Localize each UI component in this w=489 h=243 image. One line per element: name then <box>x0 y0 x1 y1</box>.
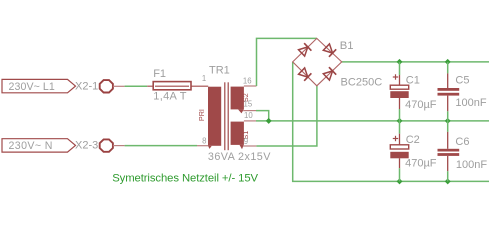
diode D-TL <box>298 43 311 56</box>
pin 9 lead <box>243 145 257 147</box>
wire top rail to C5 <box>447 62 449 74</box>
junction mid rail C1/C2 <box>397 119 402 124</box>
transformer TR1 <box>197 65 271 164</box>
svg-text:X2-3: X2-3 <box>75 140 98 152</box>
pin 10 lead <box>244 120 256 122</box>
svg-text:B1: B1 <box>340 40 354 52</box>
capacitor C2 <box>390 134 436 170</box>
svg-text:C6: C6 <box>455 136 469 148</box>
svg-text:36VA 2x15V: 36VA 2x15V <box>208 151 271 163</box>
wire TR1 pin 10 / mid rail 0V <box>256 120 489 122</box>
svg-text:TR1: TR1 <box>209 65 230 77</box>
pin 16 lead <box>244 85 257 87</box>
wire top rail to C1 <box>399 62 401 75</box>
junction top rail C1 <box>397 60 402 65</box>
wire bridge minus to bottom rail <box>293 62 489 181</box>
wire C1 to mid rail <box>399 109 401 121</box>
svg-text:230V~ L1: 230V~ L1 <box>9 81 55 93</box>
svg-text:C5: C5 <box>455 75 469 87</box>
capacitor C6 <box>438 132 488 171</box>
bridge rectifier B1 <box>293 38 383 88</box>
svg-text:Symetrisches Netzteil +/- 15V: Symetrisches Netzteil +/- 15V <box>112 172 258 184</box>
junction bottom rail C2 <box>397 179 402 184</box>
svg-text:100nF: 100nF <box>456 159 487 171</box>
svg-text:PRI: PRI <box>197 109 206 121</box>
svg-text:X2-1: X2-1 <box>75 80 98 92</box>
net flag 230V~ L1 <box>2 79 76 93</box>
svg-text:BC250C: BC250C <box>341 76 383 88</box>
fuse F1 <box>147 68 208 103</box>
diode D-BR <box>323 67 336 80</box>
net flag 230V~ N <box>2 139 76 153</box>
svg-text:1,4A T: 1,4A T <box>153 91 186 103</box>
wire TR1 pin 16 to bridge AC top <box>257 38 317 86</box>
connector pin X2-1 <box>75 80 125 92</box>
wire C5 to mid rail <box>447 111 449 121</box>
wire mid rail to C2 <box>399 121 401 134</box>
secondary winding S2 <box>231 87 244 110</box>
TR1 pin 8 lead <box>197 145 208 147</box>
diode D-BL <box>298 67 311 80</box>
svg-text:16: 16 <box>243 77 252 86</box>
wire mid rail to C6 <box>447 121 449 132</box>
svg-text:9: 9 <box>244 137 248 146</box>
svg-text:230V~ N: 230V~ N <box>9 140 53 152</box>
pin 15 lead <box>243 110 256 112</box>
svg-text:100nF: 100nF <box>455 97 486 109</box>
svg-text:1: 1 <box>202 74 206 83</box>
svg-text:C1: C1 <box>406 75 420 87</box>
svg-text:470µF: 470µF <box>405 158 437 170</box>
wire X2-1 to F1 <box>125 85 148 87</box>
secondary winding S1 <box>231 122 244 145</box>
svg-text:F1: F1 <box>153 68 166 80</box>
core lines <box>224 82 225 150</box>
svg-text:15: 15 <box>244 99 253 108</box>
wire bridge plus / top rail <box>342 61 489 63</box>
capacitor C5 <box>438 73 487 111</box>
svg-text:470µF: 470µF <box>405 99 437 111</box>
wire C6 to bottom rail <box>447 171 449 181</box>
wire X2-3 to TR1 pin 8 <box>125 145 197 147</box>
wire TR1 pin 9 to bridge AC bottom <box>256 86 317 146</box>
primary winding PRI <box>208 87 221 146</box>
connector pin X2-3 <box>75 139 125 151</box>
capacitor C1 <box>390 74 436 111</box>
svg-text:10: 10 <box>244 111 253 120</box>
junction mid rail C5/C6 <box>445 119 450 124</box>
junction center tap <box>266 119 271 124</box>
junction bottom rail C6 <box>445 179 450 184</box>
junction top rail C5 <box>445 60 450 65</box>
svg-text:C2: C2 <box>406 134 420 146</box>
wire TR1 pin 15 to center tap junction <box>256 111 269 121</box>
svg-text:8: 8 <box>202 137 206 146</box>
diode D-TR <box>323 43 336 56</box>
wire C2 to bottom rail <box>399 168 401 181</box>
